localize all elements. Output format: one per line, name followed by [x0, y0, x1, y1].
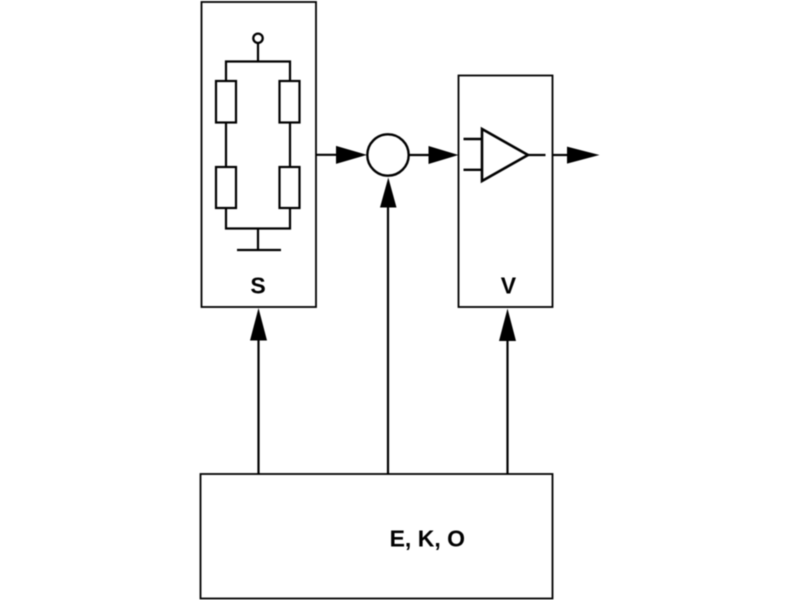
wire left bridge middle — [225, 123, 227, 168]
wire summing node to V — [409, 154, 429, 156]
arrowhead to S — [250, 308, 267, 341]
wire right bridge middle — [289, 123, 291, 168]
arrowhead into summing node — [336, 146, 367, 164]
wire K to summing node — [387, 207, 389, 474]
arrowhead into block V — [429, 146, 459, 164]
arrowhead to summing node — [380, 178, 397, 208]
svg-text:S: S — [250, 273, 265, 299]
resistor R2 — [280, 81, 300, 123]
op-amp U1 — [482, 129, 528, 181]
wire op-amp output — [528, 154, 546, 156]
block V outline (amplifier) — [459, 76, 553, 308]
terminal node (bridge supply) — [253, 34, 262, 43]
wire bridge bottom bus — [226, 208, 290, 229]
wire O to V — [506, 341, 508, 475]
wire S output — [316, 154, 337, 156]
wire terminal to bridge top bus — [257, 44, 259, 63]
arrowhead to V — [499, 309, 516, 342]
block S outline (sensor) — [202, 2, 317, 307]
wire bridge top bus — [226, 62, 290, 83]
svg-text:E, K, O: E, K, O — [390, 526, 465, 552]
summing node — [367, 134, 408, 175]
resistor R1 — [216, 81, 236, 123]
wire ground stem — [257, 229, 259, 251]
svg-text:V: V — [501, 273, 517, 299]
op-amp input stub lower — [464, 169, 483, 171]
ground — [237, 249, 281, 251]
arrowhead output — [567, 147, 600, 164]
op-amp input stub upper — [464, 138, 483, 140]
resistor R4 — [280, 167, 300, 208]
wire V output — [553, 154, 569, 156]
resistor R3 — [216, 167, 236, 208]
block E,K,O outline — [201, 474, 553, 599]
wire E to S — [257, 340, 259, 474]
